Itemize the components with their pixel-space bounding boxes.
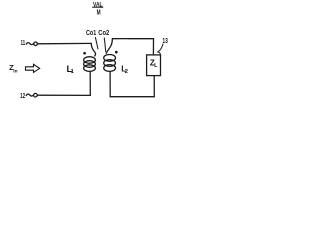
svg-text:L: L (154, 63, 157, 69)
svg-text:12: 12 (20, 93, 25, 100)
svg-text:13: 13 (162, 38, 168, 45)
svg-text:Co1: Co1 (86, 30, 96, 37)
svg-text:VAL: VAL (93, 1, 103, 8)
svg-text:M: M (97, 10, 101, 17)
svg-text:11: 11 (21, 40, 26, 47)
svg-text:1: 1 (71, 69, 75, 75)
svg-text:Co2: Co2 (98, 30, 109, 37)
svg-text:in: in (13, 68, 17, 74)
svg-text:2: 2 (125, 69, 128, 75)
